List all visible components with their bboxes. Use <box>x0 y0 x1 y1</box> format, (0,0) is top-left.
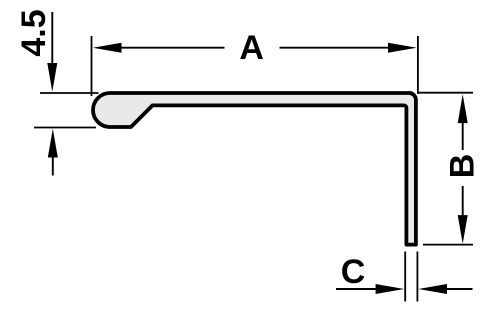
svg-text:A: A <box>239 29 264 67</box>
svg-text:B: B <box>444 154 482 179</box>
dimension B: line upper segment with up arrow <box>462 119 464 150</box>
dimension 4.5: extension line bottom <box>34 127 96 129</box>
svg-text:4.5: 4.5 <box>15 9 53 56</box>
dimension B: extension line top <box>417 92 473 94</box>
dimension B: extension line bottom <box>423 244 473 246</box>
dimension A: arrow left <box>93 43 122 53</box>
dimension A: arrow right <box>388 43 417 53</box>
dimension C: left line with right arrow <box>336 288 379 290</box>
dimension 4.5: line below with up arrow <box>52 155 54 176</box>
dimension A: line left segment <box>118 47 225 49</box>
profile cross-section (L-shaped handle strip) <box>93 93 416 245</box>
dimension C: right line with left arrow <box>444 288 473 290</box>
dimension C: extension line right <box>416 252 418 302</box>
dimension A: line right segment <box>280 47 393 49</box>
dimension 4.5: line above with down arrow <box>51 12 53 66</box>
dimension B: line lower segment with down arrow <box>462 186 464 219</box>
dimension A: extension line right <box>417 36 419 94</box>
dimension 4.5: extension line top <box>40 92 99 94</box>
svg-text:C: C <box>341 253 366 291</box>
dimension A: extension line left <box>91 36 93 96</box>
dimension C: extension line left <box>404 252 406 302</box>
